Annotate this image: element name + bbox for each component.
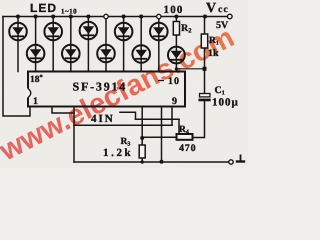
svg-text:10: 10	[168, 76, 180, 87]
svg-text:470: 470	[179, 143, 196, 154]
svg-text:1: 1	[33, 96, 38, 107]
wire: down to R4	[178, 119, 180, 134]
junction block rail	[203, 67, 207, 71]
wire: LED column 6	[105, 17, 107, 72]
label pin 10	[158, 80, 164, 82]
wire: top V+ rail	[3, 16, 229, 18]
wire: pin stub x=161.5 to ground	[161, 107, 163, 162]
wire: LED column 3	[52, 17, 54, 72]
wire: 4IN step	[120, 112, 136, 119]
resistor R3	[139, 145, 145, 158]
wire: LED column 2	[35, 17, 37, 72]
wire: signal horizontal	[136, 118, 180, 120]
LED D6	[97, 45, 115, 63]
resistor R1	[201, 34, 207, 48]
watermark www.elecfans.com	[0, 21, 239, 167]
wire: LED column 10	[175, 17, 177, 72]
LED D7	[115, 23, 133, 41]
LED D9	[150, 23, 168, 41]
svg-text:5V: 5V	[216, 20, 229, 31]
wire: R3 junction to R4	[142, 136, 176, 138]
wire: pin stub x=52	[52, 107, 74, 113]
junction dots on top rail	[16, 14, 207, 18]
wire: col8 down through R3	[141, 107, 143, 145]
node: ground terminal	[229, 160, 233, 164]
wire: LED column 4	[70, 17, 72, 72]
junction dot ground col8	[141, 160, 144, 163]
svg-text:SF-3914: SF-3914	[73, 80, 128, 94]
node: open junction col9	[157, 14, 161, 18]
paper background	[0, 0, 248, 168]
svg-text:100: 100	[164, 4, 184, 16]
wire: R4 right to rail	[193, 101, 205, 138]
svg-text:1.2k: 1.2k	[103, 147, 133, 159]
LED D3	[44, 23, 62, 41]
node: open junction col6	[104, 14, 108, 18]
wire: LED column 1	[17, 17, 19, 72]
svg-text:4IN: 4IN	[91, 113, 115, 125]
LED D5	[80, 22, 98, 40]
wire: x=74 down to ground rail	[73, 107, 75, 162]
node: Vcc terminal	[228, 14, 233, 19]
right rail + resistor R1	[204, 17, 206, 94]
wire: LED column 5	[87, 17, 89, 72]
junction dot R3 top	[140, 136, 144, 140]
wire: LED10 node to rail	[176, 68, 204, 70]
svg-text:LED: LED	[30, 1, 57, 15]
IC U1 SF-3914 box	[27, 72, 186, 107]
resistor R2	[173, 22, 179, 36]
wire: horizontal under 4IN	[74, 124, 172, 126]
wire: ground rail	[74, 161, 229, 163]
wire: pin stub x=172	[171, 107, 173, 125]
wire: left side down	[3, 17, 30, 117]
svg-text:1~10: 1~10	[61, 8, 77, 16]
junction dot ground x161.5	[160, 160, 164, 164]
svg-text:9: 9	[172, 96, 177, 107]
LED D10	[168, 47, 185, 64]
svg-text:100μ: 100μ	[212, 97, 239, 109]
resistor R4	[177, 134, 193, 140]
svg-text:1k: 1k	[208, 48, 219, 59]
wire: LED column 9	[158, 17, 160, 72]
wires below IC	[52, 101, 229, 162]
LED D8	[132, 45, 150, 63]
LED D1	[9, 23, 27, 41]
wire: LED column 7	[123, 17, 125, 72]
LED D4	[62, 45, 80, 63]
LED D2	[27, 45, 45, 63]
ground symbol	[236, 155, 245, 162]
capacitor C1	[199, 94, 211, 102]
wire: LED column 8	[140, 17, 142, 72]
